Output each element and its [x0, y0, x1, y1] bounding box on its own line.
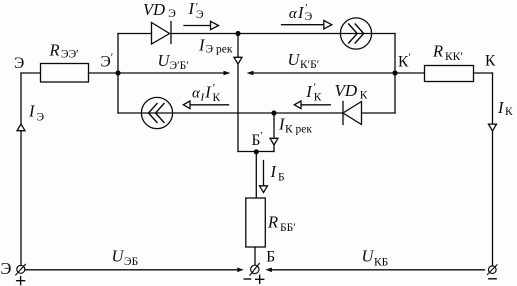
svg-text:I: I: [270, 162, 278, 181]
svg-text:I: I: [497, 98, 505, 117]
svg-text:ЭБ: ЭБ: [124, 256, 138, 268]
svg-text:I: I: [188, 0, 196, 18]
svg-text:К: К: [314, 92, 322, 104]
svg-text:Э рек: Э рек: [206, 43, 233, 55]
svg-text:К рек: К рек: [285, 124, 312, 136]
svg-text:К: К: [360, 90, 368, 102]
svg-text:Э: Э: [168, 8, 176, 20]
svg-text:R: R: [267, 213, 278, 232]
svg-text:α: α: [289, 6, 298, 22]
svg-text:Б: Б: [278, 172, 285, 184]
svg-text:R: R: [432, 42, 443, 61]
svg-text:Б: Б: [266, 248, 275, 265]
svg-text:U: U: [112, 247, 125, 266]
svg-text:ЭЭ′: ЭЭ′: [61, 49, 79, 61]
svg-text:КК′: КК′: [445, 51, 463, 63]
svg-text:Э: Э: [1, 259, 12, 278]
svg-text:Э′: Э′: [101, 52, 114, 71]
svg-text:К: К: [485, 53, 496, 70]
svg-text:Э: Э: [196, 9, 204, 21]
svg-text:R: R: [49, 41, 60, 60]
svg-text:Б′: Б′: [252, 130, 263, 149]
svg-text:U: U: [288, 50, 301, 69]
svg-text:I: I: [305, 82, 313, 101]
svg-text:ББ′: ББ′: [280, 222, 296, 234]
svg-text:Э: Э: [305, 11, 313, 23]
svg-text:Э: Э: [37, 112, 45, 124]
svg-text:Э′Б′: Э′Б′: [170, 60, 189, 72]
svg-text:VD: VD: [143, 0, 165, 19]
svg-text:К′: К′: [398, 52, 411, 71]
svg-text:U: U: [362, 247, 375, 266]
svg-text:К: К: [213, 92, 221, 104]
svg-text:К: К: [505, 106, 513, 118]
svg-text:Э: Э: [14, 55, 24, 72]
svg-text:КБ: КБ: [374, 257, 388, 269]
svg-text:I: I: [28, 102, 36, 121]
svg-text:I: I: [204, 82, 212, 101]
svg-text:К′Б′: К′Б′: [300, 59, 319, 71]
svg-text:VD: VD: [335, 81, 358, 100]
